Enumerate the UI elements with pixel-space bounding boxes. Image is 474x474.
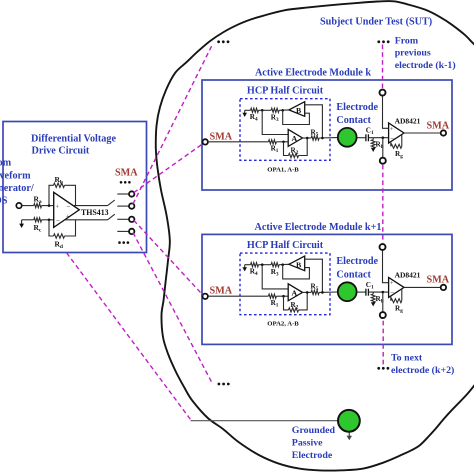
- svg-text:R4: R4: [250, 113, 258, 122]
- svg-text:electrode (k-1): electrode (k-1): [395, 60, 456, 71]
- wire A output: [303, 137, 312, 139]
- svg-text:Active Electrode Module k: Active Electrode Module k: [255, 68, 371, 79]
- wire SMA stub 4: [117, 230, 129, 232]
- svg-text:To next: To next: [391, 352, 423, 363]
- wire feedback bottom: [49, 220, 54, 236]
- wire R2 feedback loop: [284, 142, 289, 156]
- resistor R4: [245, 109, 251, 111]
- wire B- feedback loop: [283, 110, 310, 124]
- svg-text:Electrode: Electrode: [336, 102, 378, 113]
- resistor Rd: [54, 234, 65, 238]
- wire R1 to A-: [276, 141, 288, 143]
- svg-text:HCP Half Circuit: HCP Half Circuit: [247, 240, 324, 251]
- svg-text:previous: previous: [395, 48, 431, 59]
- inter-electrode connector (bottom): [380, 312, 386, 318]
- op-amp B (buffer, points left): [289, 256, 305, 271]
- wire J1 down to A+: [262, 110, 288, 134]
- svg-text:generator/: generator/: [0, 183, 34, 194]
- wire R4-R3: [259, 109, 272, 111]
- svg-text:A: A: [292, 134, 298, 143]
- in-amp AD8421: [389, 277, 404, 297]
- node dots above SMA bank: [120, 181, 123, 184]
- node A- junction: [282, 141, 285, 144]
- svg-text:Rg: Rg: [395, 305, 403, 314]
- resistor Rb (bias): [372, 292, 374, 294]
- svg-text:−: −: [390, 134, 394, 142]
- svg-text:+: +: [390, 281, 394, 287]
- ground (R4): [244, 265, 246, 268]
- svg-text:R3: R3: [271, 268, 279, 277]
- op-amp A: [288, 284, 302, 301]
- wire amp output: [404, 286, 441, 288]
- svg-text:R2: R2: [291, 147, 299, 156]
- resistor R5: [311, 290, 319, 294]
- wire SMA stub 3: [117, 218, 129, 220]
- svg-text:−: −: [390, 289, 394, 297]
- node bias junction: [382, 291, 385, 294]
- wire SMA to R1: [208, 141, 269, 143]
- capacitor C1: [365, 134, 367, 141]
- inter-electrode connector (top): [380, 244, 386, 250]
- svg-text:Active Electrode Module k+1: Active Electrode Module k+1: [255, 222, 382, 233]
- cable module k to module k+1 (vertical): [382, 165, 384, 244]
- node sense junction: [321, 291, 324, 294]
- wire input to Ra: [22, 205, 34, 207]
- electrode contact (green): [338, 282, 357, 301]
- box Active Electrode Module k: [202, 80, 452, 190]
- svg-text:Rd: Rd: [55, 239, 63, 250]
- wire B+ input sense line: [305, 259, 323, 292]
- svg-text:Subject Under Test (SUT): Subject Under Test (SUT): [320, 17, 432, 28]
- in-amp AD8421: [389, 123, 404, 143]
- cable to grounded passive electrode: [67, 253, 191, 420]
- node dots: more electrodes above (top-left): [217, 40, 220, 43]
- resistor Rb (bias): [372, 138, 374, 140]
- svg-text:Drive Circuit: Drive Circuit: [32, 145, 90, 156]
- wire top connector to amp+: [383, 96, 389, 129]
- box Differential Voltage Drive Circuit: [3, 122, 147, 253]
- inter-electrode connector (bottom): [380, 158, 386, 164]
- wire SMA stub 1: [117, 193, 129, 195]
- svg-text:Rb: Rb: [55, 175, 63, 186]
- svg-text:+: +: [390, 127, 394, 133]
- svg-text:SMA: SMA: [427, 120, 450, 131]
- node bias junction: [382, 136, 385, 139]
- svg-text:B: B: [296, 106, 301, 115]
- wire A output: [303, 291, 312, 293]
- svg-text:Contact: Contact: [336, 269, 371, 280]
- node A- junction: [282, 295, 285, 298]
- svg-text:Grounded: Grounded: [292, 425, 336, 436]
- ground below passive electrode: [348, 433, 350, 438]
- svg-text:A: A: [292, 288, 298, 297]
- SMA connector 1: [129, 191, 134, 196]
- resistor Rc: [34, 218, 42, 222]
- box HCP Half Circuit (dashed): [240, 253, 330, 315]
- svg-text:From: From: [395, 36, 419, 47]
- wire junction to bottom connector: [382, 138, 384, 158]
- resistor R3: [271, 108, 279, 112]
- resistor R5: [311, 136, 319, 140]
- resistor Rg: [390, 142, 392, 147]
- wire SMA stub 2: [117, 205, 129, 207]
- inter-electrode connector (top): [380, 90, 386, 96]
- wire C1 to amp-: [368, 137, 388, 139]
- wire R5 to electrode contact: [319, 137, 337, 139]
- cable SMA2 to electrodes above: [133, 44, 213, 204]
- svg-text:R1: R1: [271, 299, 279, 308]
- resistor R4: [245, 264, 251, 266]
- SMA connector 2: [129, 203, 134, 208]
- svg-text:C1: C1: [366, 281, 374, 290]
- SMA input connector: [203, 139, 208, 144]
- svg-text:R2: R2: [291, 301, 299, 310]
- SMA output connector: [441, 285, 446, 290]
- svg-text:Ra: Ra: [34, 195, 42, 206]
- cable from previous electrode (vertical): [382, 45, 384, 89]
- resistor R3: [271, 263, 279, 267]
- svg-text:Rg: Rg: [395, 150, 403, 159]
- op-amp THS413 (fully differential): [54, 192, 80, 227]
- cable SMA1 to module k: [134, 144, 203, 193]
- svg-text:Contact: Contact: [336, 115, 371, 126]
- node A output junction: [306, 137, 309, 140]
- svg-text:R3: R3: [271, 114, 279, 123]
- wire Ra to op-amp: [42, 205, 54, 207]
- cable SMA4 to further electrodes: [133, 233, 212, 382]
- node junction top input: [48, 204, 51, 207]
- wire junction to bottom connector: [382, 292, 384, 312]
- SMA connector 4: [129, 229, 134, 234]
- svg-text:electrode (k+2): electrode (k+2): [391, 365, 454, 376]
- wire SMA to R1: [208, 295, 269, 297]
- resistor R1: [268, 140, 276, 144]
- svg-text:Passive: Passive: [292, 438, 323, 449]
- node dots: more electrodes below: [218, 383, 221, 386]
- wire C1 to amp-: [368, 291, 388, 293]
- wire contact to C1: [357, 291, 366, 293]
- wire B+ input sense line: [305, 105, 323, 138]
- input connector (from generator): [16, 203, 21, 208]
- svg-text:SMA: SMA: [210, 131, 233, 142]
- svg-text:From: From: [0, 158, 12, 169]
- svg-text:OPA1, A-B: OPA1, A-B: [267, 166, 299, 173]
- svg-text:THS413: THS413: [81, 208, 109, 217]
- svg-text:+: +: [56, 204, 60, 210]
- wire R4-R3: [259, 264, 272, 266]
- wire top connector to amp+: [383, 250, 389, 283]
- ground (inverting input side): [22, 219, 34, 221]
- wire output top: [73, 205, 107, 207]
- node A output junction: [306, 291, 309, 294]
- grounded passive electrode (green): [338, 410, 360, 432]
- resistor R1: [268, 294, 276, 298]
- svg-text:Differential Voltage: Differential Voltage: [31, 133, 116, 144]
- box HCP Half Circuit (dashed): [240, 99, 330, 161]
- resistor Rb: [54, 183, 65, 187]
- svg-text:B: B: [296, 260, 301, 269]
- wire R5 to electrode contact: [319, 291, 337, 293]
- svg-text:waveform: waveform: [0, 171, 31, 182]
- svg-text:R5: R5: [311, 283, 319, 292]
- op-amp B (buffer, points left): [289, 102, 305, 117]
- cable to next electrode (vertical): [382, 321, 384, 366]
- svg-text:−: −: [67, 203, 71, 211]
- svg-text:Electrode: Electrode: [336, 256, 378, 267]
- node J1: [261, 263, 264, 266]
- wire contact to C1: [357, 137, 366, 139]
- SMA output connector: [441, 130, 446, 135]
- svg-text:R5: R5: [311, 128, 319, 137]
- wire R3 to op-amp B output: [279, 263, 289, 265]
- capacitor C1: [365, 289, 367, 296]
- svg-text:SMA: SMA: [115, 167, 138, 178]
- wire B- feedback loop: [283, 265, 310, 279]
- svg-text:SMA: SMA: [427, 275, 450, 286]
- electrode contact (green): [338, 128, 357, 147]
- wire R2 feedback loop: [284, 296, 289, 310]
- wire R3 to op-amp B output: [279, 109, 289, 111]
- node X (B output junction): [281, 109, 284, 112]
- node sense junction: [321, 137, 324, 140]
- resistor Rg: [390, 296, 392, 301]
- svg-text:Rc: Rc: [34, 223, 42, 234]
- svg-text:Electrode: Electrode: [292, 450, 333, 461]
- svg-text:HCP Half Circuit: HCP Half Circuit: [247, 86, 324, 97]
- wire R1 to A-: [276, 295, 288, 297]
- switch arm 1 (open): [108, 200, 115, 206]
- node junction bottom input: [48, 219, 51, 222]
- resistor Ra: [34, 204, 42, 208]
- svg-text:R1: R1: [271, 145, 279, 154]
- op-amp A: [288, 129, 302, 146]
- SMA connector 3: [129, 217, 134, 222]
- cable SMA3 to module k+1: [134, 220, 203, 295]
- wire J1 down to A+: [262, 265, 288, 289]
- node dots: from previous electrode: [377, 40, 380, 43]
- SMA input connector: [203, 294, 208, 299]
- wire output bottom: [65, 219, 108, 221]
- wire to grounded passive electrode: [191, 420, 339, 422]
- wire feedback top: [49, 185, 54, 205]
- svg-text:−: −: [56, 216, 60, 224]
- svg-text:R4: R4: [250, 268, 258, 277]
- resistor R2: [289, 153, 299, 157]
- svg-text:AD8421: AD8421: [395, 271, 421, 280]
- resistor R2: [289, 308, 299, 312]
- svg-text:AD8421: AD8421: [395, 116, 421, 125]
- switch arm 2 (open): [108, 214, 115, 220]
- svg-text:C1: C1: [366, 127, 374, 136]
- node dots below SMA bank: [118, 241, 121, 244]
- wire amp output: [404, 132, 441, 134]
- node dots: to next electrode: [377, 367, 380, 370]
- svg-text:SMA: SMA: [210, 286, 233, 297]
- svg-text:DDS: DDS: [0, 196, 8, 207]
- node J1: [261, 109, 264, 112]
- node X (B output junction): [281, 263, 284, 266]
- box Active Electrode Module k+1: [202, 234, 452, 344]
- ground (R4): [244, 110, 246, 113]
- svg-text:OPA2, A-B: OPA2, A-B: [267, 321, 299, 328]
- Subject Under Test blob outline: [156, 1, 474, 471]
